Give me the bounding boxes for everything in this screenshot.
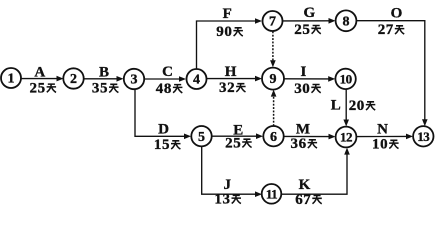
duration 20天 (L) xyxy=(349,98,376,114)
svg-text:12: 12 xyxy=(340,130,352,145)
svg-text:67: 67 xyxy=(295,192,311,208)
duration 90天 (F) xyxy=(216,24,243,40)
duration 25天 (E) xyxy=(225,136,252,152)
svg-text:25: 25 xyxy=(29,81,45,97)
svg-text:90: 90 xyxy=(216,24,232,40)
svg-text:48: 48 xyxy=(156,81,172,97)
svg-text:30: 30 xyxy=(294,81,310,97)
svg-text:15: 15 xyxy=(154,137,170,153)
wire H 4-9 xyxy=(207,76,262,82)
duration 35天 (B) xyxy=(92,81,119,97)
svg-text:13: 13 xyxy=(417,129,430,144)
svg-text:6: 6 xyxy=(270,130,277,145)
node 8 xyxy=(336,10,357,31)
svg-text:8: 8 xyxy=(343,14,350,29)
svg-text:10: 10 xyxy=(340,72,352,87)
wire N 12-13 xyxy=(357,134,414,140)
wire C 3-4 xyxy=(144,76,186,82)
wire O 8-13 xyxy=(357,21,428,127)
svg-text:4: 4 xyxy=(193,73,200,88)
svg-text:27: 27 xyxy=(378,22,394,38)
duration 48天 (C) xyxy=(156,81,183,97)
svg-text:K: K xyxy=(299,177,311,193)
svg-text:D: D xyxy=(158,122,169,138)
svg-text:11: 11 xyxy=(266,186,277,201)
svg-text:25: 25 xyxy=(294,22,310,38)
node 2 xyxy=(63,68,83,88)
svg-text:9: 9 xyxy=(270,72,277,87)
svg-text:L: L xyxy=(331,98,341,114)
node 5 xyxy=(191,126,211,146)
wire I 9-10 xyxy=(284,76,335,82)
duration 10天 (N) xyxy=(372,137,399,153)
svg-text:13: 13 xyxy=(214,192,230,208)
duration 13天 (J) xyxy=(214,192,241,208)
node 3 xyxy=(124,69,144,89)
node 6 xyxy=(263,126,283,146)
duration 32天 (H) xyxy=(219,80,246,96)
svg-text:H: H xyxy=(225,64,237,80)
svg-text:O: O xyxy=(391,5,403,21)
node 13 xyxy=(413,126,433,146)
node 10 xyxy=(335,69,355,89)
svg-text:N: N xyxy=(377,122,388,138)
duration 27天 (O) xyxy=(378,22,405,38)
svg-text:36: 36 xyxy=(290,136,306,152)
svg-text:20: 20 xyxy=(349,98,365,114)
duration 25天 (A) xyxy=(29,81,56,97)
dummy arrow 7-9 dashed xyxy=(270,31,276,67)
svg-text:7: 7 xyxy=(269,15,276,30)
node 7 xyxy=(263,11,283,31)
node 12 xyxy=(336,127,357,148)
svg-text:G: G xyxy=(303,5,315,21)
svg-text:A: A xyxy=(34,65,45,81)
svg-text:5: 5 xyxy=(198,130,205,145)
wire A 1-2 xyxy=(21,76,64,82)
wire F 4-7 xyxy=(197,18,263,69)
svg-text:C: C xyxy=(162,64,173,80)
svg-text:J: J xyxy=(224,177,232,193)
wire K 11-12 xyxy=(281,148,350,195)
wire D 3-5 xyxy=(135,89,191,139)
node 9 xyxy=(262,68,284,90)
duration 67天 (K) xyxy=(295,192,322,208)
wire E 5-6 xyxy=(212,133,263,139)
wire M 6-12 xyxy=(284,134,336,140)
svg-text:B: B xyxy=(99,64,109,80)
wire G 7-8 xyxy=(283,18,336,24)
svg-text:3: 3 xyxy=(131,73,138,88)
svg-text:F: F xyxy=(223,6,232,22)
duration 30天 (I) xyxy=(294,81,321,97)
svg-text:35: 35 xyxy=(92,81,108,97)
dummy arrow 6-9 dashed xyxy=(271,90,277,126)
svg-text:10: 10 xyxy=(372,137,388,153)
duration 36天 (M) xyxy=(290,136,317,152)
duration 15天 (D) xyxy=(154,137,181,153)
wire B 2-3 xyxy=(84,76,124,82)
svg-text:2: 2 xyxy=(70,72,77,87)
node 11 xyxy=(262,184,282,204)
svg-text:25: 25 xyxy=(225,136,241,152)
svg-text:32: 32 xyxy=(219,80,235,96)
node 4 xyxy=(187,69,207,89)
svg-text:I: I xyxy=(300,64,306,80)
node 1 xyxy=(1,68,21,88)
wire L 10-12 xyxy=(343,89,349,126)
svg-text:1: 1 xyxy=(8,72,15,87)
wire J 5-11 xyxy=(202,147,262,198)
duration 25天 (G) xyxy=(294,22,321,38)
